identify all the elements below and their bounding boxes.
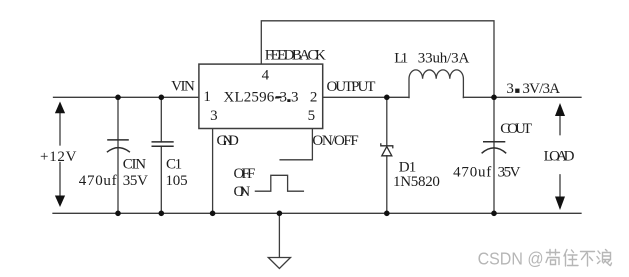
svg-text:3: 3	[506, 81, 514, 97]
svg-text:3V/3A: 3V/3A	[522, 81, 560, 97]
svg-text:L1: L1	[394, 51, 408, 67]
svg-text:470uf: 470uf	[453, 165, 491, 181]
svg-text:OFF: OFF	[234, 166, 256, 182]
svg-text:GND: GND	[217, 133, 239, 149]
svg-text:33uh/3A: 33uh/3A	[418, 51, 470, 67]
svg-text:XL2596-3.3: XL2596-3.3	[224, 90, 299, 106]
svg-text:5: 5	[308, 108, 316, 124]
svg-text:35V: 35V	[498, 165, 521, 181]
svg-text:2: 2	[310, 90, 318, 106]
svg-text:LOAD: LOAD	[544, 149, 575, 165]
svg-text:VIN: VIN	[171, 79, 195, 95]
svg-text:CIN: CIN	[123, 157, 147, 173]
svg-text:470uf: 470uf	[79, 173, 117, 189]
svg-text:+12V: +12V	[40, 149, 77, 165]
svg-text:4: 4	[262, 68, 270, 84]
svg-text:1: 1	[203, 89, 211, 105]
svg-text:OUTPUT: OUTPUT	[327, 79, 376, 95]
svg-text:C1: C1	[166, 157, 182, 173]
svg-text:CSDN @: CSDN @	[478, 249, 544, 269]
svg-text:105: 105	[166, 173, 188, 189]
svg-text:FEEDBACK: FEEDBACK	[265, 47, 326, 63]
svg-text:ON: ON	[234, 184, 251, 200]
svg-text:ON/OFF: ON/OFF	[312, 133, 358, 149]
svg-text:COUT: COUT	[500, 121, 532, 137]
svg-text:1: 1	[409, 159, 417, 175]
svg-text:35V: 35V	[123, 173, 148, 189]
svg-text:3: 3	[210, 108, 218, 124]
svg-text:1N5820: 1N5820	[393, 174, 440, 190]
